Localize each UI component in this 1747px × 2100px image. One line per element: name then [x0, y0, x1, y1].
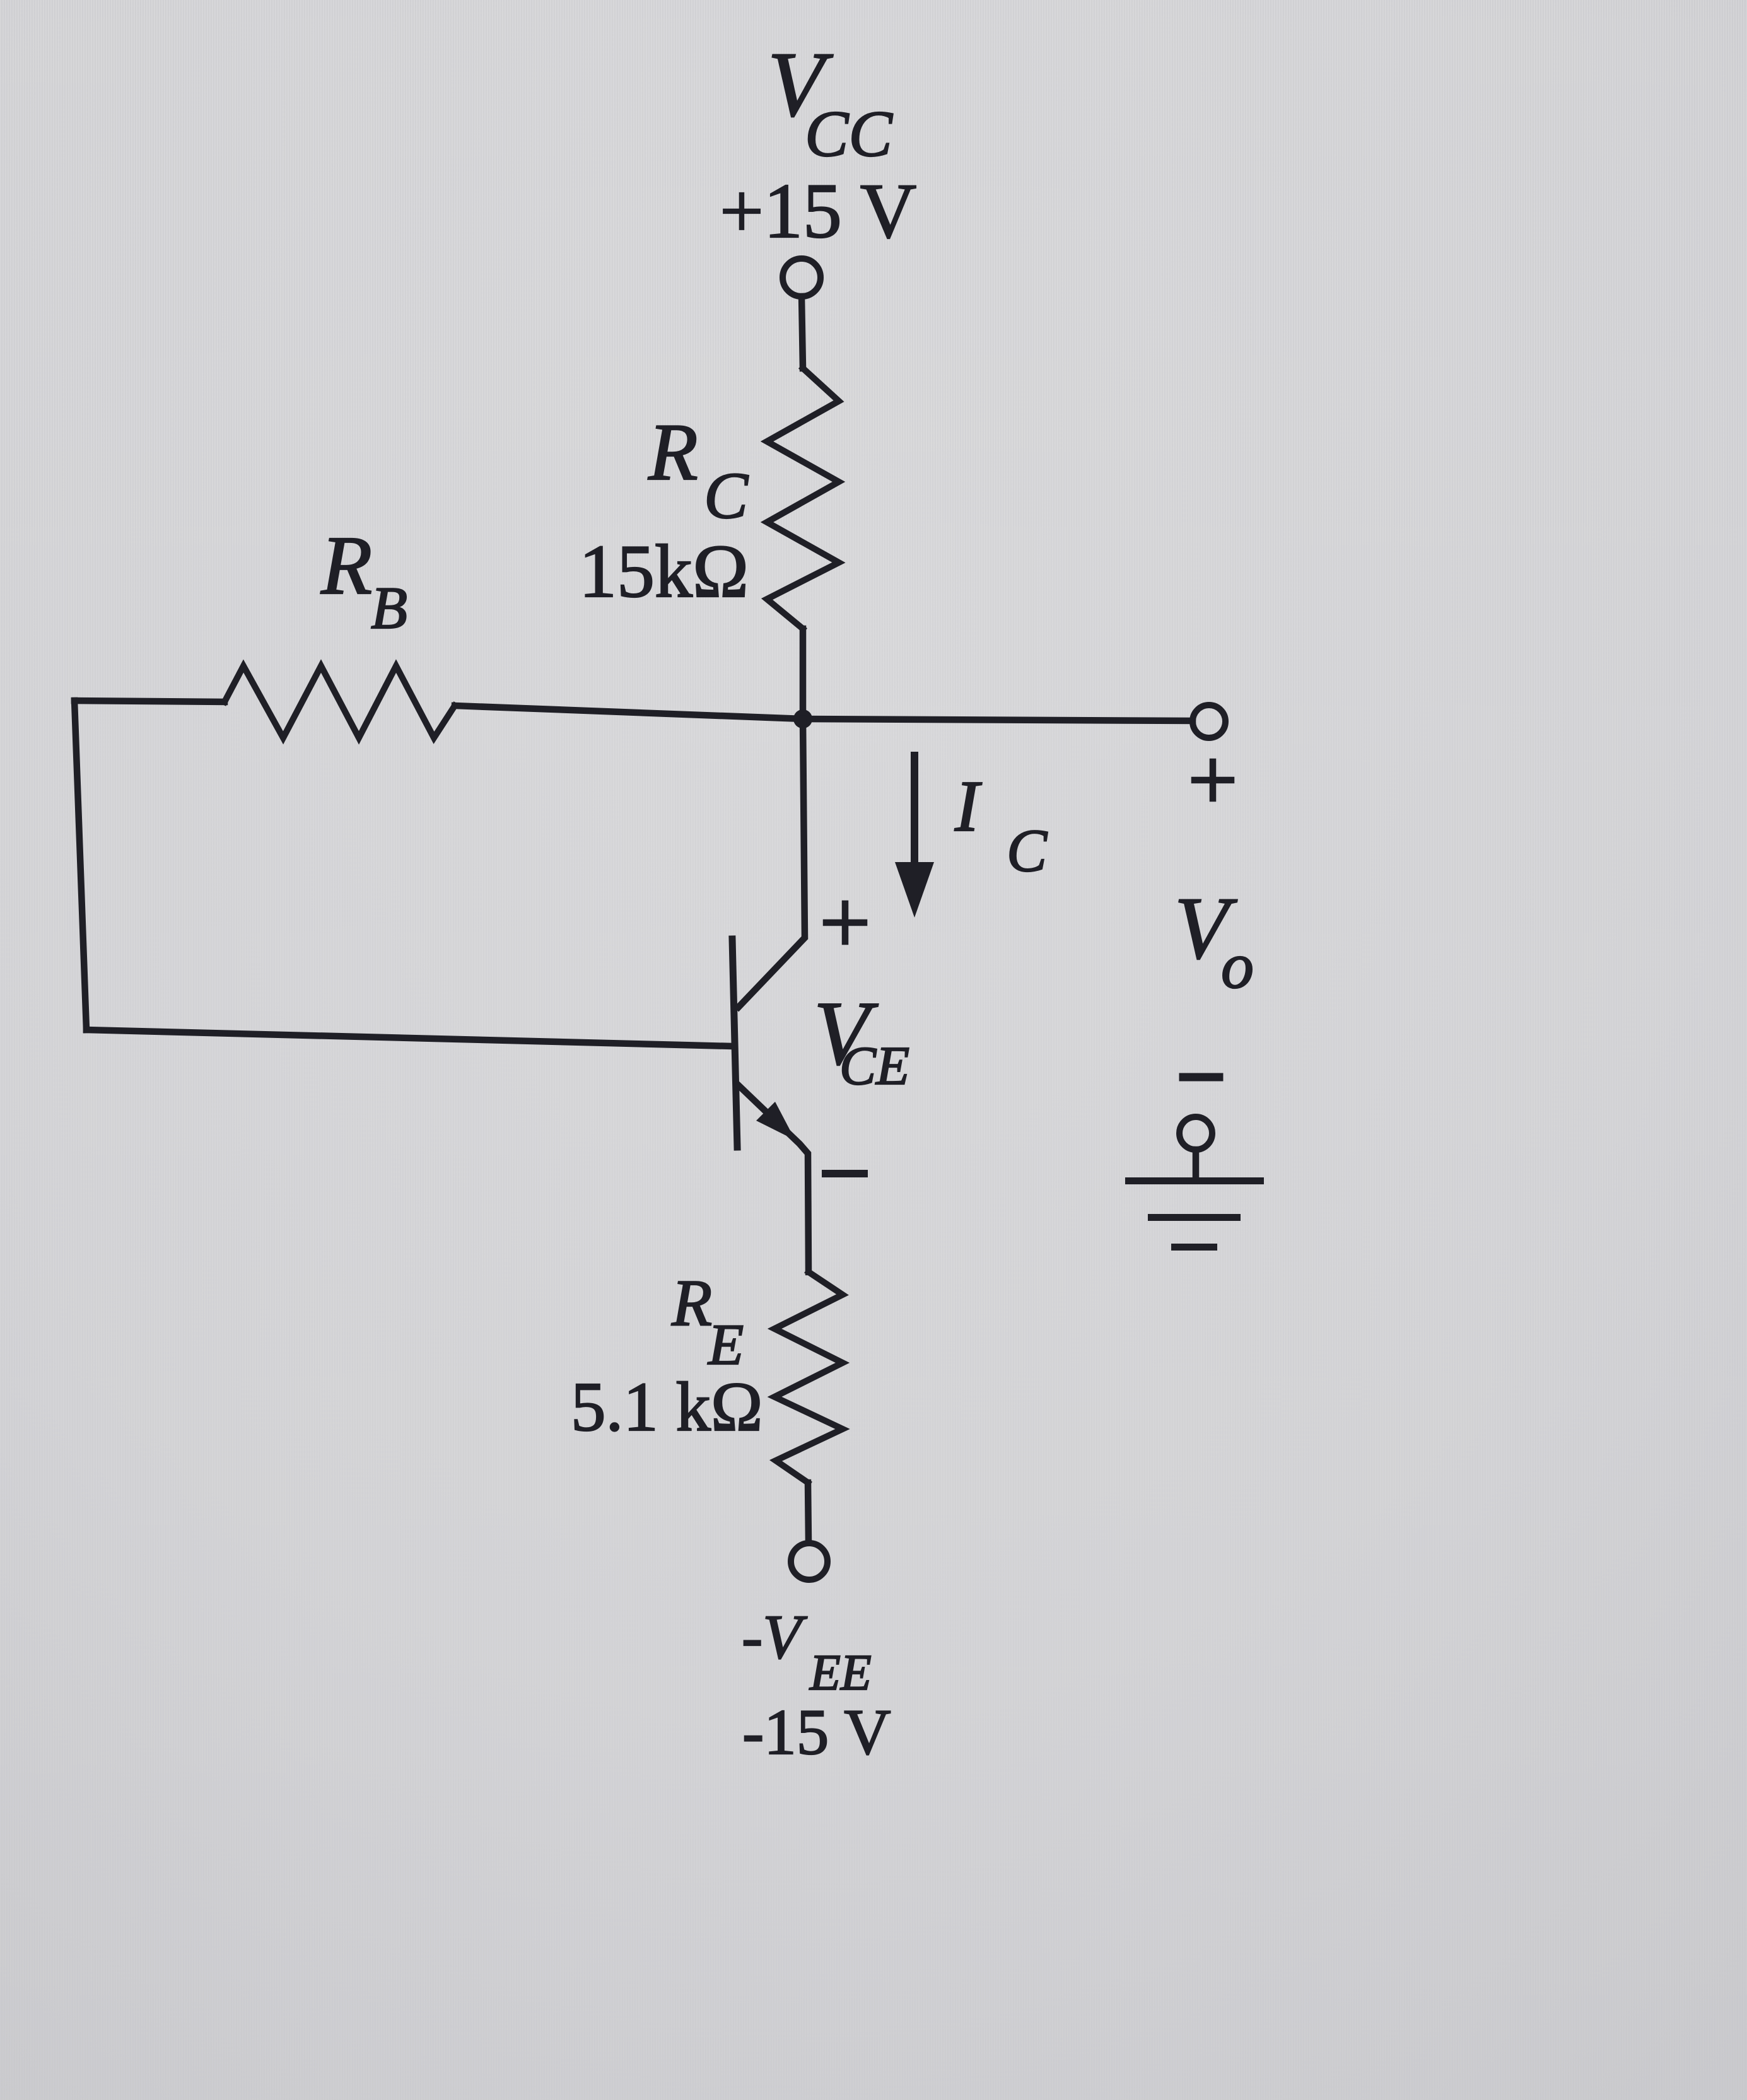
label -VEE — [742, 1602, 872, 1701]
label output minus sign — [1183, 1073, 1219, 1082]
wire emitter to VEE terminal — [808, 1483, 809, 1543]
wire VCC lead — [802, 296, 803, 368]
label VCE minus sign — [826, 1170, 864, 1177]
svg-text:I: I — [954, 766, 982, 846]
current arrow IC head — [895, 862, 934, 918]
label RE — [671, 1266, 744, 1377]
svg-text:-V: -V — [742, 1602, 807, 1672]
current arrow IC — [911, 755, 918, 865]
svg-text:C: C — [1007, 817, 1048, 884]
transistor Q1 base bar — [732, 939, 737, 1147]
label VCC — [768, 33, 893, 170]
resistor RC — [767, 368, 839, 629]
transistor Q1 collector lead — [739, 719, 805, 1007]
svg-text:E: E — [707, 1312, 744, 1377]
svg-text:CE: CE — [839, 1035, 909, 1096]
svg-text:B: B — [371, 575, 407, 641]
label VCE — [814, 983, 909, 1096]
transistor Q1 emitter arrow — [756, 1102, 795, 1140]
label RC — [648, 407, 749, 532]
output terminal ground side — [1179, 1117, 1212, 1150]
svg-text:EE: EE — [809, 1645, 872, 1701]
svg-text:CC: CC — [805, 98, 893, 170]
wire base feedback bottom — [86, 1030, 732, 1046]
wire left vertical feedback — [74, 701, 86, 1030]
resistor RE — [774, 1272, 843, 1483]
svg-text:o: o — [1221, 930, 1254, 1002]
svg-text:R: R — [648, 407, 698, 497]
svg-text:+15 V: +15 V — [720, 168, 916, 254]
resistor RB — [225, 666, 455, 738]
wire RC bottom to junction — [800, 629, 807, 719]
label VCE plus sign — [826, 904, 864, 942]
svg-text:15kΩ: 15kΩ — [579, 529, 749, 613]
node collector junction — [793, 709, 812, 728]
label RB — [320, 518, 407, 641]
label Vo — [1174, 879, 1254, 1002]
label output plus sign — [1195, 762, 1231, 798]
wire ground stem — [1193, 1150, 1200, 1179]
svg-text:5.1 kΩ: 5.1 kΩ — [571, 1368, 763, 1446]
svg-text:R: R — [671, 1266, 712, 1339]
svg-text:-15 V: -15 V — [742, 1696, 891, 1768]
wire junction to output terminal — [803, 719, 1193, 721]
transistor Q1 emitter lead — [739, 1086, 809, 1272]
output terminal plus side — [1193, 705, 1225, 738]
power terminal VCC — [783, 259, 821, 296]
wire RB to junction — [455, 706, 803, 719]
label IC — [954, 766, 1048, 884]
power terminal -VEE — [791, 1543, 827, 1580]
ground — [1125, 1177, 1264, 1251]
wire top-left horizontal — [74, 701, 225, 702]
svg-text:C: C — [704, 458, 749, 532]
svg-text:R: R — [320, 518, 372, 612]
